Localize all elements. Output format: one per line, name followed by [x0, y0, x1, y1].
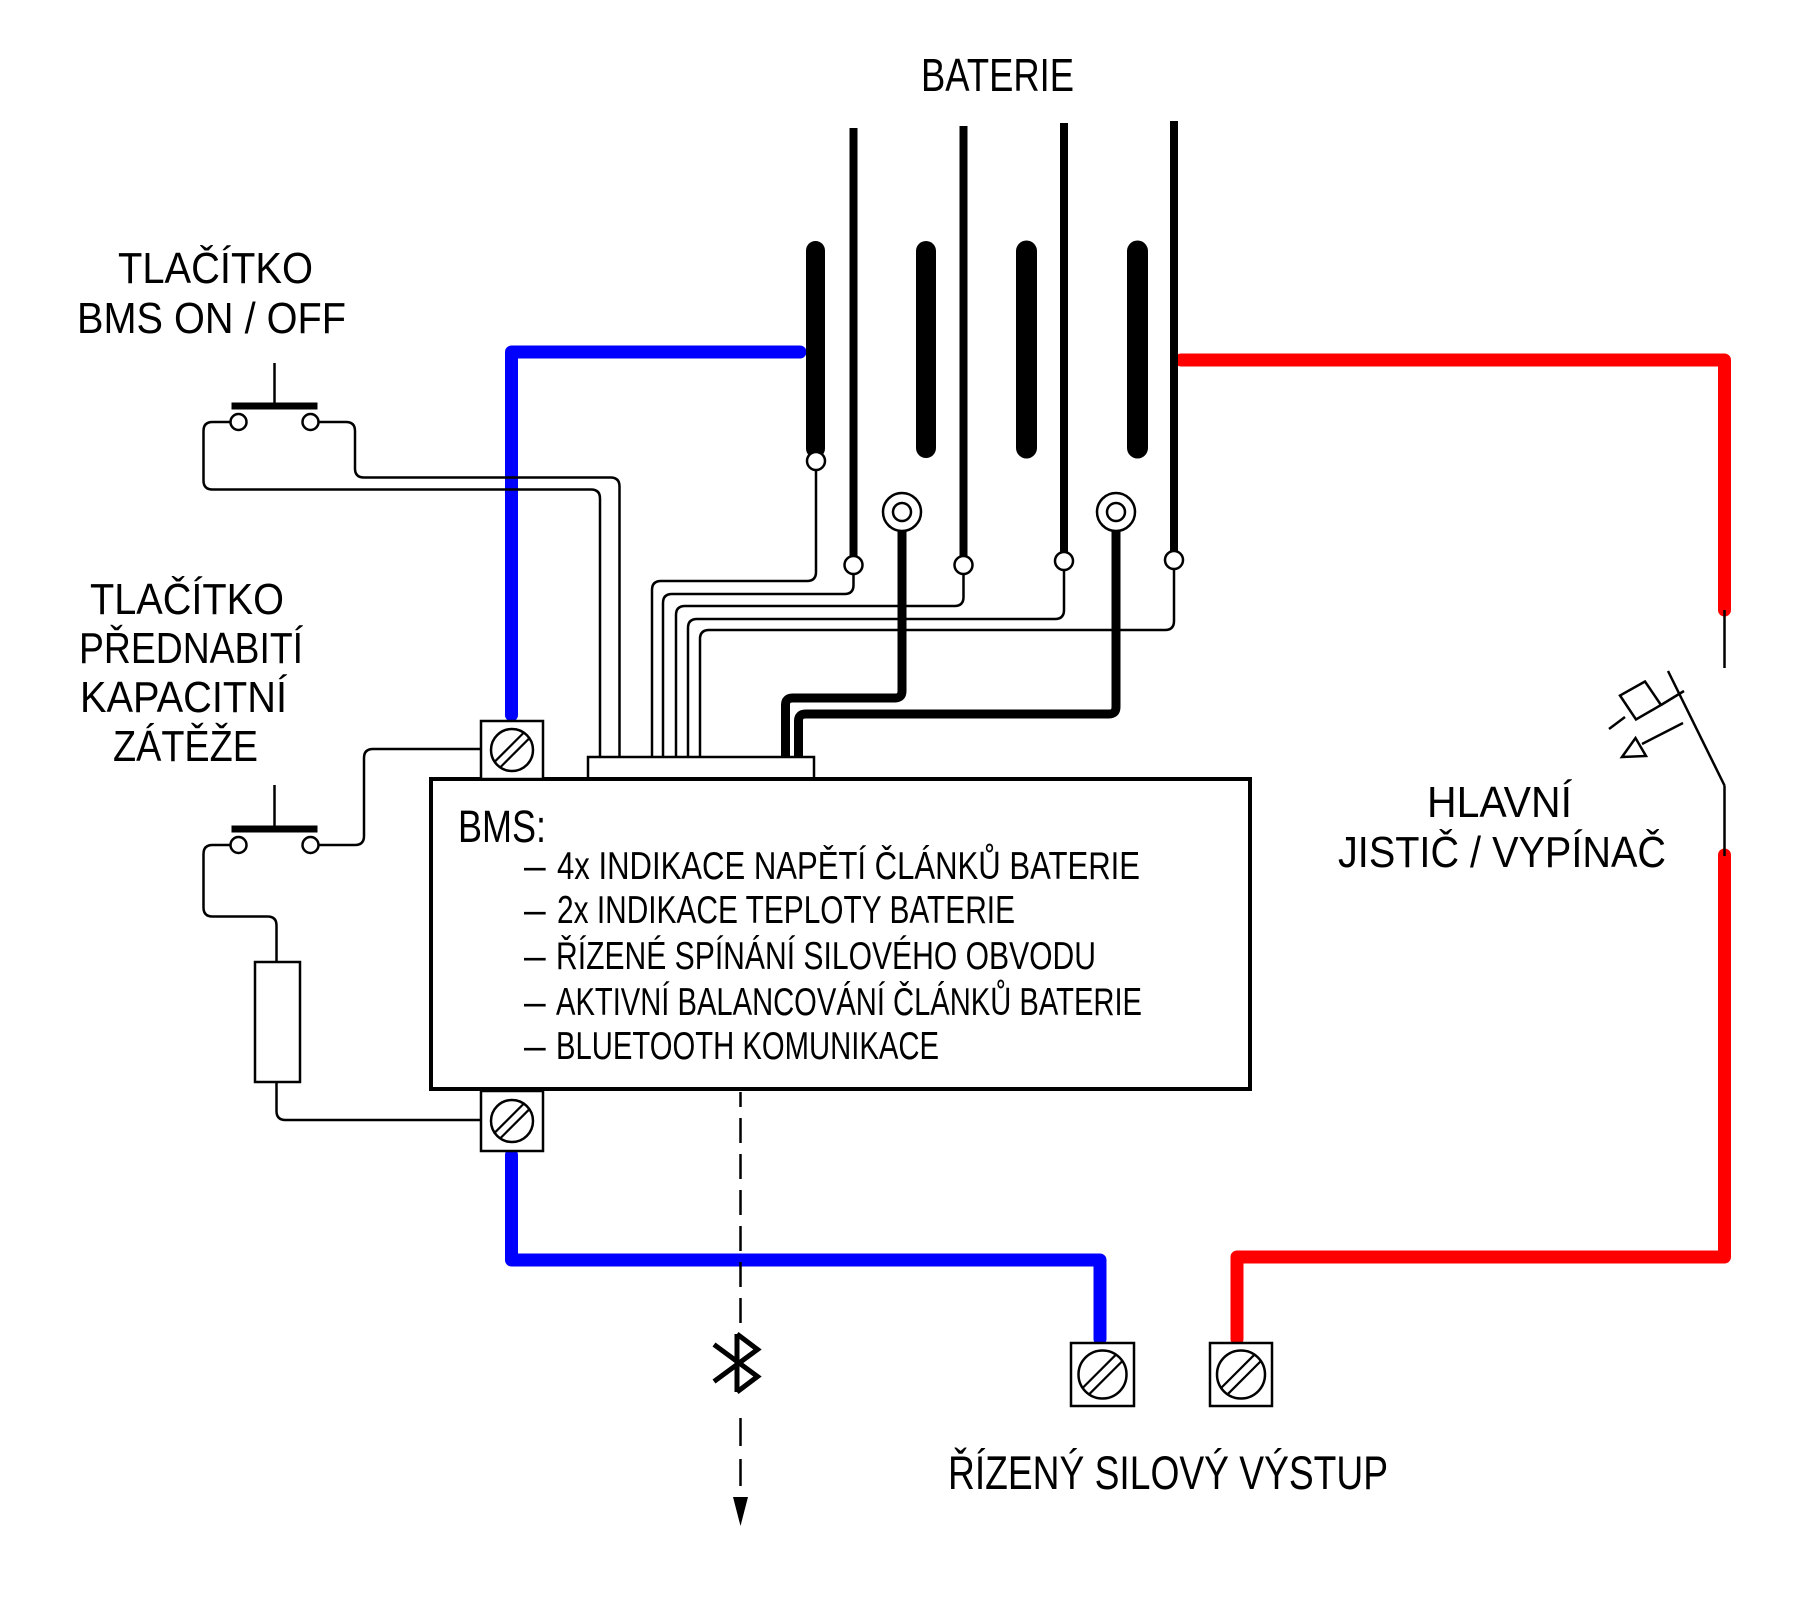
BMS feature item 5 [524, 1025, 939, 1068]
wire S2 left contact to resistor R1 [204, 845, 277, 962]
breaker Q1 blade [1668, 671, 1725, 786]
svg-text:–: – [524, 889, 546, 932]
svg-text:2x INDIKACE TEPLOTY BATERIE: 2x INDIKACE TEPLOTY BATERIE [557, 889, 1015, 932]
BMS feature item 3 [524, 935, 1096, 978]
battery cell 2 positive plate [960, 126, 968, 556]
battery cell 3 negative plate [1016, 251, 1037, 448]
terminal X3 (output negative) [1071, 1343, 1134, 1406]
pushbutton S2 contact left [231, 837, 247, 853]
breaker Q1 trip unit tail [1609, 717, 1625, 729]
svg-text:–: – [524, 935, 546, 978]
svg-text:BLUETOOTH KOMUNIKACE: BLUETOOTH KOMUNIKACE [556, 1025, 939, 1068]
svg-text:KAPACITNÍ: KAPACITNÍ [80, 673, 288, 722]
svg-text:–: – [524, 981, 546, 1024]
pushbutton S2 contact right [303, 837, 319, 853]
sense wire tap 5 (battery positive) to BMS [700, 569, 1174, 760]
wire resistor R1 to BMS terminal X2 [277, 1082, 482, 1120]
temperature sensor 1 [883, 493, 921, 531]
svg-text:BATERIE: BATERIE [921, 49, 1074, 101]
bluetooth symbol [714, 1334, 758, 1392]
wire BMS negative output blue from terminal X2 to output terminal [512, 1155, 1101, 1339]
BMS feature item 2 [524, 889, 1015, 932]
wire BAT+ red from battery positive to breaker [1181, 360, 1725, 610]
battery cell 4 positive plate [1170, 121, 1178, 551]
sense tap node 2 [845, 556, 863, 574]
sense tap node 3 [955, 556, 973, 574]
sense tap node 1 [807, 452, 825, 470]
battery cell 2 negative plate [916, 251, 936, 448]
svg-text:TLAČÍTKO: TLAČÍTKO [90, 574, 284, 624]
svg-text:ZÁTĚŽE: ZÁTĚŽE [113, 722, 258, 771]
temperature sensor 2 wire to BMS [799, 530, 1117, 760]
svg-text:HLAVNÍ: HLAVNÍ [1427, 778, 1573, 827]
BMS box U1 [431, 779, 1250, 1089]
temperature sensor 1 wire to BMS [786, 530, 903, 760]
wire S1 right contact to BMS connector [319, 422, 620, 760]
breaker Q1 bottom lead [1723, 786, 1726, 857]
pushbutton S1 contact right [303, 414, 319, 430]
pushbutton S1 BMS ON/OFF actuator [232, 363, 318, 406]
terminal X2 (BMS negative output) [481, 1091, 543, 1151]
bluetooth arrow head [733, 1497, 748, 1526]
svg-text:–: – [524, 1025, 546, 1068]
bluetooth dashed link line upper [739, 1092, 742, 1332]
battery cell 1 positive plate [850, 128, 858, 556]
wire S2 right contact to BMS terminal X1 [319, 749, 481, 845]
BMS feature item 4 [524, 979, 1142, 1024]
BMS connector strip [588, 757, 814, 779]
wire red from breaker to positive output terminal [1237, 855, 1725, 1339]
breaker Q1 actuator arrow shaft [1642, 723, 1683, 744]
svg-text:TLAČÍTKO: TLAČÍTKO [118, 243, 313, 293]
svg-text:–: – [524, 845, 546, 888]
battery cell 4 negative plate [1127, 251, 1148, 448]
svg-text:JISTIČ / VYPÍNAČ: JISTIČ / VYPÍNAČ [1338, 827, 1666, 877]
sense wire tap 4 (cell3/4 junction) to BMS [688, 570, 1064, 760]
sense wire tap 3 (cell2/3 junction) to BMS [676, 574, 964, 760]
breaker Q1 top lead [1723, 610, 1726, 668]
svg-text:ŘÍZENÝ SILOVÝ VÝSTUP: ŘÍZENÝ SILOVÝ VÝSTUP [948, 1446, 1388, 1499]
sense wire tap 2 (cell1/2 junction) to BMS [663, 574, 854, 760]
svg-text:ŘÍZENÉ SPÍNÁNÍ SILOVÉHO OBVODU: ŘÍZENÉ SPÍNÁNÍ SILOVÉHO OBVODU [556, 935, 1096, 978]
pushbutton S2 precharge actuator [232, 785, 318, 829]
svg-text:4x INDIKACE NAPĚTÍ ČLÁNKŮ BATE: 4x INDIKACE NAPĚTÍ ČLÁNKŮ BATERIE [557, 843, 1140, 888]
wire S1 left contact to BMS connector [204, 422, 601, 760]
svg-text:PŘEDNABITÍ: PŘEDNABITÍ [79, 624, 304, 673]
wire BAT- blue from battery negative to BMS terminal X1 [512, 352, 801, 715]
svg-text:AKTIVNÍ BALANCOVÁNÍ ČLÁNKŮ BAT: AKTIVNÍ BALANCOVÁNÍ ČLÁNKŮ BATERIE [556, 979, 1142, 1024]
breaker Q1 trip unit box [1620, 682, 1661, 720]
sense wire tap 1 (battery negative) to BMS [652, 461, 816, 760]
temperature sensor 2 [1097, 493, 1135, 531]
terminal X1 (BMS negative input) [481, 721, 543, 779]
battery cell 3 positive plate [1060, 123, 1068, 552]
breaker Q1 actuator arrow head [1622, 738, 1646, 757]
bluetooth dashed link line lower [739, 1418, 742, 1486]
resistor R1 precharge [255, 962, 300, 1082]
breaker Q1 trip unit link to blade [1661, 691, 1684, 705]
terminal X4 (output positive) [1210, 1343, 1272, 1406]
sense tap node 5 [1165, 551, 1183, 569]
pushbutton S1 contact left [231, 414, 247, 430]
svg-text:BMS ON / OFF: BMS ON / OFF [77, 294, 346, 343]
BMS feature item 1 [524, 843, 1140, 888]
sense tap node 4 [1055, 552, 1073, 570]
battery cell 1 negative plate [806, 251, 825, 449]
